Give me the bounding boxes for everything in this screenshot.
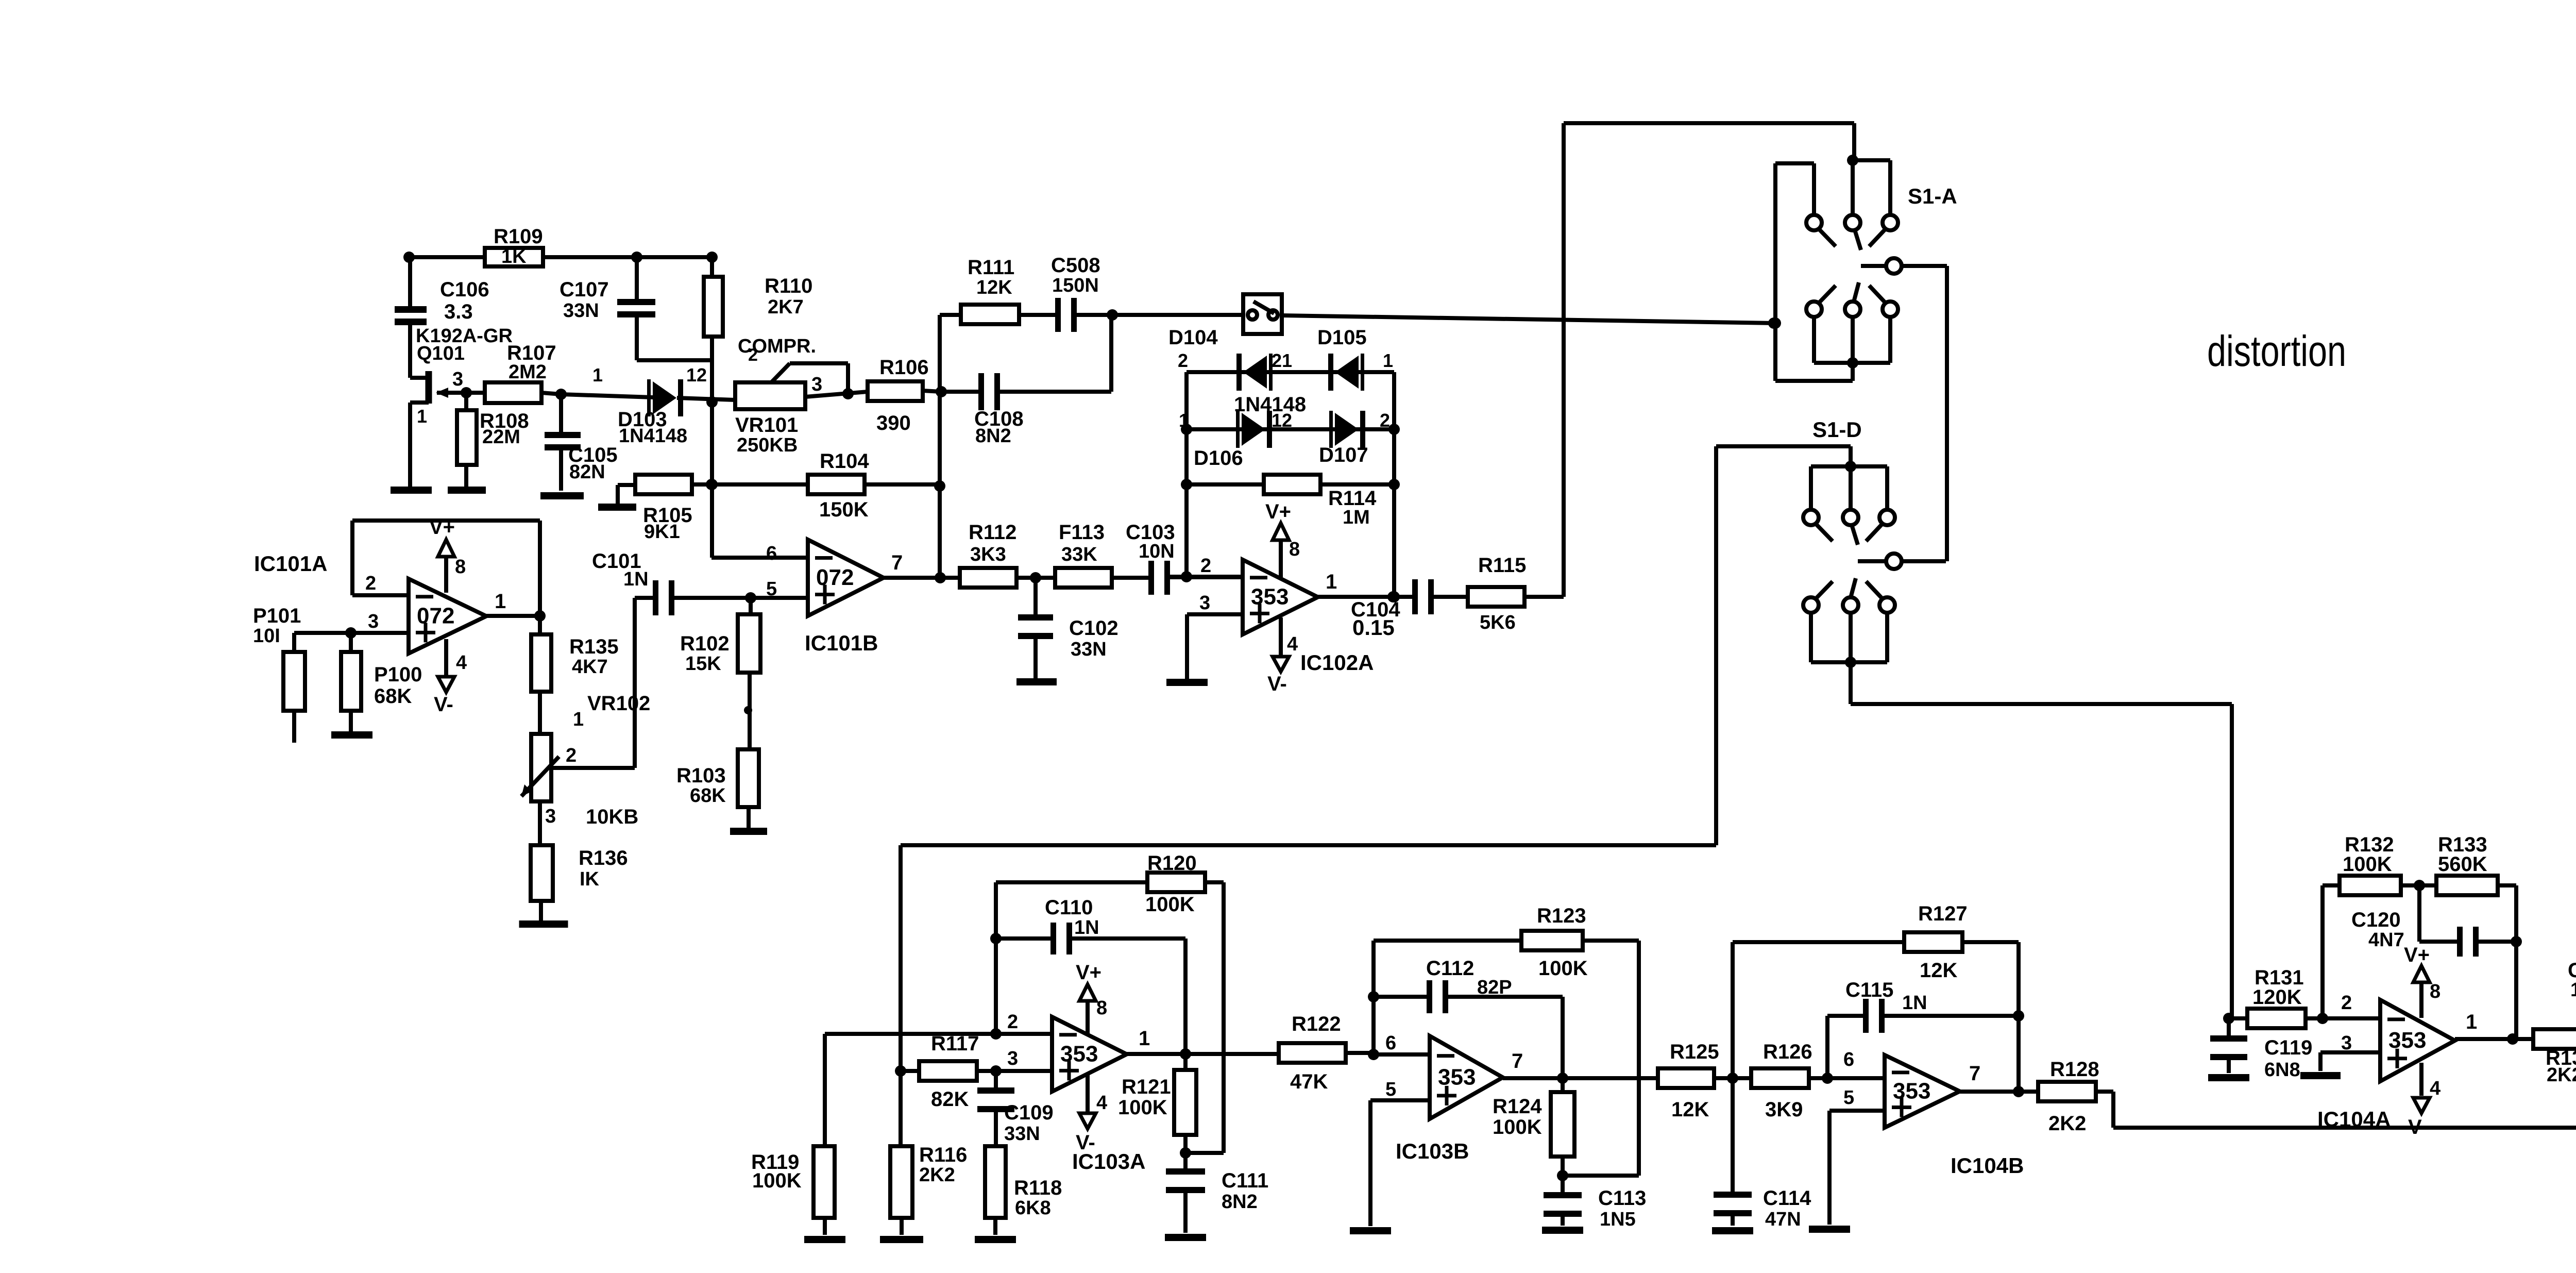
svg-text:12K: 12K [1920,959,1957,982]
svg-text:R109: R109 [494,225,543,248]
svg-text:8: 8 [2430,981,2441,1002]
svg-text:2: 2 [2341,992,2352,1014]
svg-text:072: 072 [417,604,454,629]
svg-text:10KB: 10KB [586,806,638,828]
svg-text:V-: V- [2408,1116,2428,1138]
svg-text:8N2: 8N2 [1222,1191,1258,1213]
svg-text:150N: 150N [1052,275,1099,296]
svg-text:100K: 100K [2343,853,2392,876]
svg-text:1: 1 [573,709,584,730]
svg-text:R120: R120 [1147,852,1197,875]
svg-text:82K: 82K [931,1088,969,1111]
svg-text:distortion: distortion [2207,327,2346,375]
svg-text:R106: R106 [879,356,929,379]
svg-text:R135: R135 [569,635,619,658]
svg-text:2: 2 [365,573,376,594]
svg-text:R116: R116 [919,1144,967,1166]
svg-text:12: 12 [1272,410,1292,431]
svg-text:4: 4 [1096,1092,1107,1114]
svg-text:250KB: 250KB [737,434,798,456]
svg-text:68K: 68K [690,785,726,807]
svg-text:33K: 33K [1061,544,1097,565]
svg-text:IC104A: IC104A [2317,1107,2391,1131]
svg-text:100K: 100K [1493,1116,1542,1138]
svg-text:150K: 150K [819,498,869,521]
svg-text:150N: 150N [2570,979,2576,1001]
svg-text:33N: 33N [563,300,599,322]
svg-text:3.3: 3.3 [444,300,473,323]
svg-text:S1-A: S1-A [1908,184,1957,208]
svg-text:33N: 33N [1071,639,1107,660]
svg-text:6: 6 [1385,1032,1396,1054]
svg-text:3: 3 [452,368,463,390]
svg-text:10I: 10I [253,625,280,647]
svg-text:V-: V- [1267,673,1287,695]
svg-text:2: 2 [1007,1011,1018,1033]
svg-text:2K7: 2K7 [768,296,804,318]
svg-text:82P: 82P [1477,977,1512,998]
svg-text:2: 2 [748,345,758,365]
svg-text:C120: C120 [2351,909,2401,931]
svg-text:47K: 47K [1290,1070,1328,1093]
svg-text:C111: C111 [1222,1169,1268,1192]
svg-text:4N7: 4N7 [2368,929,2404,951]
svg-text:47N: 47N [1765,1209,1801,1230]
svg-text:C102: C102 [1069,617,1118,640]
svg-text:C107: C107 [560,278,609,301]
svg-text:353: 353 [1438,1065,1476,1090]
svg-text:R115: R115 [1478,554,1526,577]
svg-text:V+: V+ [2404,944,2430,966]
svg-text:R125: R125 [1670,1041,1719,1063]
svg-text:1N4148: 1N4148 [619,425,687,447]
svg-text:IC101A: IC101A [254,551,327,576]
svg-text:R123: R123 [1537,904,1586,927]
svg-text:S1-D: S1-D [1812,417,1862,442]
svg-text:1N: 1N [1902,992,1927,1014]
svg-text:2K2: 2K2 [2547,1064,2576,1086]
svg-text:R102: R102 [680,632,730,655]
svg-text:353: 353 [1893,1079,1930,1104]
svg-text:3: 3 [545,806,556,827]
svg-text:1K: 1K [501,246,527,267]
svg-text:V+: V+ [1265,500,1291,523]
svg-text:1: 1 [592,364,603,386]
svg-text:5: 5 [1385,1079,1396,1100]
svg-text:C114: C114 [1763,1187,1811,1210]
svg-text:R112: R112 [969,521,1016,544]
svg-text:C115: C115 [1845,979,1893,1001]
svg-text:2: 2 [1380,410,1390,431]
svg-text:7: 7 [1512,1050,1523,1073]
svg-text:6: 6 [766,543,777,564]
svg-text:12: 12 [686,364,707,386]
svg-text:9K1: 9K1 [644,521,680,543]
svg-text:VR101: VR101 [735,414,798,437]
svg-text:1: 1 [1139,1027,1150,1050]
svg-text:100K: 100K [1145,893,1195,916]
svg-text:C707: C707 [2568,959,2576,982]
svg-text:3: 3 [368,611,379,632]
svg-text:0.15: 0.15 [1352,615,1395,640]
svg-text:3: 3 [1199,592,1210,614]
svg-text:8: 8 [1096,997,1107,1019]
svg-text:100K: 100K [1538,957,1588,980]
svg-text:R126: R126 [1763,1041,1812,1063]
svg-text:120K: 120K [2252,986,2302,1009]
svg-text:R136: R136 [579,847,628,869]
svg-text:100K: 100K [1118,1096,1167,1119]
svg-text:D107: D107 [1319,444,1368,466]
svg-text:P101: P101 [253,605,301,627]
svg-text:V+: V+ [1076,961,1101,984]
svg-text:C119: C119 [2264,1036,2312,1059]
svg-text:D104: D104 [1168,326,1218,349]
svg-text:2: 2 [1200,555,1211,577]
svg-text:R121: R121 [1122,1076,1171,1098]
svg-text:1: 1 [2466,1011,2477,1033]
svg-text:R110: R110 [765,275,812,297]
svg-text:8N2: 8N2 [975,425,1011,447]
svg-text:3K9: 3K9 [1765,1098,1803,1121]
svg-text:1: 1 [417,406,427,427]
svg-text:1: 1 [495,590,506,613]
svg-text:68K: 68K [374,685,412,708]
svg-text:12K: 12K [1671,1098,1709,1121]
svg-text:2: 2 [566,745,577,766]
svg-text:10N: 10N [1139,541,1175,562]
svg-text:4K7: 4K7 [572,656,608,678]
svg-text:IC101B: IC101B [805,631,878,655]
svg-text:33N: 33N [1004,1123,1040,1145]
svg-text:2K2: 2K2 [919,1164,955,1186]
svg-text:7: 7 [891,551,903,574]
svg-text:072: 072 [816,565,854,590]
svg-text:1M: 1M [1343,507,1370,528]
svg-text:R118: R118 [1014,1177,1062,1199]
svg-text:1: 1 [1326,571,1337,593]
svg-text:15K: 15K [685,653,721,675]
svg-text:3: 3 [1007,1048,1018,1069]
svg-text:F113: F113 [1059,521,1105,544]
svg-text:8: 8 [1289,539,1300,560]
svg-text:353: 353 [2388,1028,2426,1053]
svg-text:4: 4 [456,652,467,674]
svg-text:12K: 12K [976,277,1012,298]
svg-text:4: 4 [1287,633,1298,655]
svg-text:C112: C112 [1426,957,1474,980]
svg-text:2: 2 [1178,350,1188,371]
svg-text:C113: C113 [1598,1187,1646,1210]
svg-text:D106: D106 [1194,447,1243,470]
svg-text:R128: R128 [2050,1058,2099,1081]
svg-text:390: 390 [876,412,911,434]
svg-text:R103: R103 [676,764,726,787]
svg-text:R104: R104 [820,450,869,473]
svg-text:IC103B: IC103B [1396,1139,1469,1163]
svg-text:5: 5 [1843,1087,1854,1109]
svg-text:IC103A: IC103A [1072,1149,1145,1174]
svg-text:R124: R124 [1493,1095,1542,1118]
svg-text:2M2: 2M2 [509,361,547,383]
svg-text:P100: P100 [374,663,422,686]
svg-text:Q101: Q101 [417,343,465,364]
svg-text:82N: 82N [569,461,605,483]
svg-text:1N: 1N [623,568,649,590]
svg-text:1N4148: 1N4148 [1234,393,1306,416]
svg-text:V+: V+ [429,516,455,539]
svg-text:353: 353 [1060,1042,1098,1067]
svg-text:IC104B: IC104B [1951,1153,2024,1178]
svg-text:IC102A: IC102A [1300,650,1374,675]
svg-text:C110: C110 [1045,896,1093,919]
svg-text:1: 1 [1179,410,1189,431]
svg-text:R127: R127 [1918,902,1968,925]
svg-text:2K2: 2K2 [2048,1112,2086,1135]
svg-text:D105: D105 [1317,326,1367,349]
svg-text:21: 21 [1272,350,1292,371]
svg-text:6: 6 [1843,1049,1854,1070]
svg-text:4: 4 [2430,1078,2441,1099]
svg-text:22M: 22M [482,426,520,448]
svg-text:C109: C109 [1004,1101,1054,1124]
svg-text:560K: 560K [2438,853,2487,876]
svg-text:8: 8 [455,556,466,578]
svg-text:6N8: 6N8 [2264,1059,2300,1081]
svg-text:100K: 100K [752,1169,802,1192]
svg-text:7: 7 [1969,1062,1980,1085]
svg-text:1: 1 [1383,350,1393,371]
svg-text:V-: V- [434,693,453,716]
svg-text:1N: 1N [1074,917,1099,939]
svg-text:R122: R122 [1292,1013,1341,1035]
svg-text:6K8: 6K8 [1015,1197,1051,1219]
svg-text:VR102: VR102 [587,692,650,715]
svg-text:3K3: 3K3 [970,544,1006,565]
svg-text:C106: C106 [440,278,489,301]
svg-text:R117: R117 [931,1032,979,1055]
svg-text:3: 3 [811,374,822,395]
svg-text:1N5: 1N5 [1600,1209,1636,1230]
svg-text:IK: IK [580,868,600,890]
svg-text:5: 5 [766,578,777,600]
svg-text:5K6: 5K6 [1480,612,1516,633]
svg-text:R111: R111 [968,256,1014,279]
svg-text:C508: C508 [1051,254,1100,277]
svg-text:353: 353 [1251,584,1289,610]
